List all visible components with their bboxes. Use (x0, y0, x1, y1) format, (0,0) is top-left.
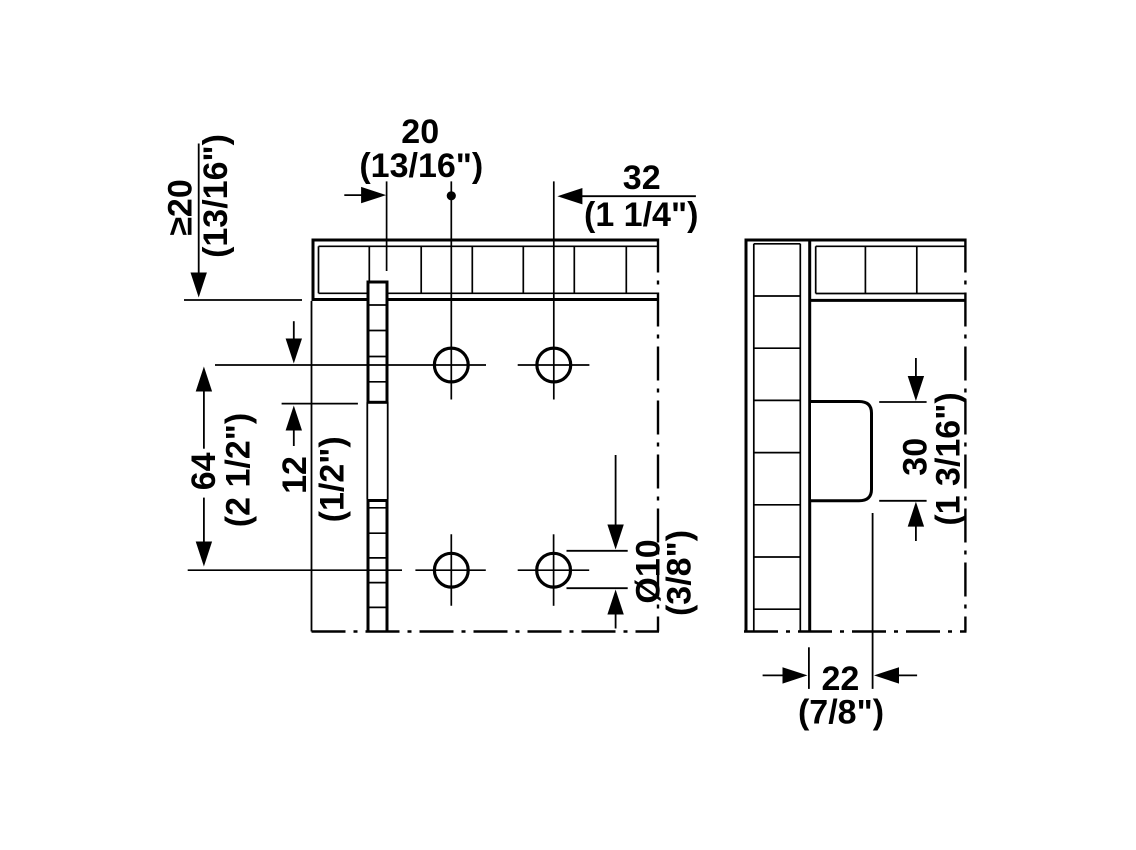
svg-text:(13/16"): (13/16") (359, 147, 483, 185)
hinge pin middle section left line (366, 402, 368, 499)
top holes horizontal centerline (215, 364, 486, 366)
top panel segment divider 3 (471, 246, 473, 293)
svg-text:32: 32 (623, 159, 661, 197)
upper tail line (615, 455, 617, 527)
knuckle lower divider 1 (368, 507, 387, 509)
bottom hole 2 (537, 553, 571, 587)
dim tail line (581, 195, 696, 197)
dim line vertical (198, 144, 200, 274)
bottom hole 1 (434, 553, 468, 587)
top panel segment divider 2 (420, 246, 422, 293)
arrow left (557, 188, 582, 204)
svg-text:(1 1/4"): (1 1/4") (584, 196, 698, 234)
side panel outer left edge (745, 239, 748, 632)
top panel outer left edge (312, 239, 315, 302)
svg-text:20: 20 (401, 113, 439, 151)
svg-text:(1 3/16"): (1 3/16") (929, 392, 967, 525)
arrow right (361, 187, 386, 203)
reference dot on hole axis (447, 191, 456, 200)
top hole 1 (434, 348, 468, 382)
hinge knuckle upper section (white filled box) (368, 282, 387, 402)
right view right break line (dash-dot) (964, 239, 966, 632)
extension line knuckle end (282, 403, 358, 405)
top panel outer top edge (312, 239, 658, 242)
svg-text:(7/8"): (7/8") (798, 694, 884, 732)
knuckle upper divider 3 (368, 356, 387, 358)
knuckle lower divider 3 (368, 557, 387, 559)
left tail line (763, 674, 783, 676)
bottom hole 1 vertical crosshair (450, 534, 452, 606)
left view right break line (dash-dot) (657, 239, 659, 632)
top panel (right view) inner left line (815, 246, 817, 293)
top hole 2 (537, 348, 571, 382)
side panel divider 3 (754, 399, 801, 401)
bottom hole 2 horizontal crosshair (518, 569, 590, 571)
arrow down (191, 273, 207, 298)
dim line upper part (203, 391, 205, 449)
bottom hole 2 vertical crosshair (553, 534, 555, 606)
arrow up (196, 367, 212, 392)
svg-text:(13/16"): (13/16") (197, 134, 235, 258)
hole column centerline A (through dot) (450, 181, 452, 399)
upper tangent line (567, 550, 628, 552)
mounting plate arm (rounded) (811, 402, 872, 501)
bottom holes horizontal centerline (188, 569, 402, 571)
lower tail line (293, 430, 295, 447)
extension line left (808, 647, 810, 689)
knuckle lower divider 5 (368, 606, 387, 608)
top panel segment divider 4 (522, 246, 524, 293)
svg-text:(1/2"): (1/2") (314, 436, 352, 522)
upper tail line (293, 321, 295, 341)
top panel inner bottom line (319, 292, 658, 294)
arrow down (196, 542, 212, 567)
hinge knuckle lower section (368, 501, 387, 632)
arrow left (874, 667, 899, 683)
lower tail line (615, 614, 617, 629)
svg-text:≥20: ≥20 (162, 179, 200, 235)
hole column centerline B (553, 181, 555, 399)
door/plate left edge (311, 301, 313, 632)
top panel (right view) inner bottom line (816, 293, 966, 295)
side panel / top panel common top edge (745, 239, 966, 242)
top panel (right view) divider 1 (864, 246, 866, 293)
top panel inner left line (318, 246, 320, 293)
svg-text:(2 1/2"): (2 1/2") (219, 413, 257, 527)
lower extension line (879, 500, 926, 502)
bottom hole 1 horizontal crosshair (415, 569, 485, 571)
top panel outer bottom edge (312, 298, 658, 301)
lower tangent line (567, 587, 628, 589)
svg-text:22: 22 (821, 660, 859, 698)
knuckle upper divider 2 (368, 330, 387, 332)
knuckle lower divider 4 (368, 582, 387, 584)
side panel divider 5 (754, 504, 801, 506)
top panel (right view) inner top line (816, 245, 966, 247)
extension line right (872, 513, 874, 689)
top panel inner top line (319, 245, 658, 247)
arrow down (607, 525, 623, 550)
svg-text:64: 64 (185, 452, 223, 490)
top panel segment divider 6 (625, 246, 627, 293)
arrow up (908, 502, 924, 527)
dim line lower part (203, 498, 205, 542)
svg-text:(3/8"): (3/8") (661, 530, 699, 616)
arrow up (607, 590, 623, 615)
side panel inner left line (753, 244, 755, 632)
side panel inner top line (754, 243, 801, 245)
side panel inner right line (799, 244, 801, 632)
right view bottom break line (dash-dot) (744, 630, 967, 632)
side panel divider 6 (754, 556, 801, 558)
top panel segment divider 1 (368, 246, 370, 293)
side panel divider 7 (754, 608, 801, 610)
dim tail line (344, 194, 363, 196)
side panel divider 1 (754, 295, 801, 297)
upper tail line (915, 358, 917, 379)
right tail line (898, 674, 917, 676)
side panel divider 2 (754, 347, 801, 349)
left view bottom break line (dash-dot) (312, 630, 660, 632)
knuckle lower divider 2 (368, 532, 387, 534)
top panel (right view) divider 2 (916, 246, 918, 293)
hinge pin middle section right line (387, 402, 389, 499)
arrow down to hole axis (286, 339, 302, 364)
arrow up to knuckle end line (286, 406, 302, 431)
ref line at panel underside (184, 299, 302, 301)
top panel segment divider 5 (573, 246, 575, 293)
lower tail line (915, 526, 917, 542)
arrow down (908, 376, 924, 401)
extension line at knuckle edge (386, 181, 388, 271)
top hole 2 horizontal crosshair (518, 364, 590, 366)
knuckle upper divider 4 (368, 381, 387, 383)
side panel outer right edge (808, 239, 811, 632)
svg-text:12: 12 (276, 456, 314, 494)
side panel divider 4 (754, 452, 801, 454)
upper extension line (879, 401, 926, 403)
knuckle upper divider 1 (368, 304, 387, 306)
arrow right (783, 667, 808, 683)
top panel (right view) outer bottom edge (810, 299, 966, 302)
